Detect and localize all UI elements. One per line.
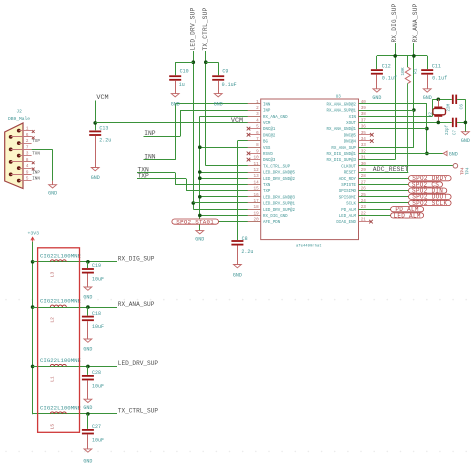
svg-text:XOUT: XOUT <box>346 122 356 126</box>
no-connect U3 pin21 <box>369 220 373 224</box>
svg-text:C27: C27 <box>92 424 101 430</box>
svg-text:BG: BG <box>263 141 268 145</box>
svg-text:GND: GND <box>214 101 223 107</box>
svg-text:DB9_Male: DB9_Male <box>8 116 30 122</box>
wire VCM to U3 pin4 <box>95 122 261 124</box>
svg-text:LED_DRV_SUP@1: LED_DRV_SUP@1 <box>263 202 295 207</box>
svg-text:GND: GND <box>233 273 242 279</box>
wire U3 pin28 <box>359 178 409 180</box>
svg-text:22M: 22M <box>448 103 452 111</box>
svg-text:19: 19 <box>254 211 260 216</box>
svg-text:L5: L5 <box>50 424 56 430</box>
wire C7 to gnd rail <box>457 122 465 124</box>
no-connect U3 pin5 <box>247 127 251 131</box>
svg-text:2.2u: 2.2u <box>241 249 253 255</box>
svg-text:6: 6 <box>256 131 259 136</box>
svg-text:40: 40 <box>361 100 367 105</box>
svg-text:TXN: TXN <box>32 153 40 157</box>
svg-text:CIG22L100MNE: CIG22L100MNE <box>40 405 82 412</box>
svg-text:RX_ANA_GND@1: RX_ANA_GND@1 <box>327 127 357 132</box>
svg-text:10uF: 10uF <box>92 437 104 443</box>
inductor L1 CIG22L100MNE <box>40 357 82 382</box>
svg-text:VCM: VCM <box>263 122 271 126</box>
capacitor C13 <box>89 126 111 168</box>
no-connect U3 pin9 <box>247 152 251 156</box>
wire U3 pin36 <box>359 128 427 130</box>
svg-text:INP: INP <box>263 110 271 114</box>
svg-text:RX_DIG_SUP: RX_DIG_SUP <box>391 3 398 42</box>
wire +3V3 rail <box>32 242 34 414</box>
svg-text:TP4: TP4 <box>461 167 465 175</box>
svg-text:GND: GND <box>83 295 92 301</box>
capacitor C18 10uF <box>82 307 104 339</box>
junction RX_ANA pin39 <box>412 108 416 112</box>
svg-text:34: 34 <box>361 137 367 142</box>
svg-text:C19: C19 <box>92 263 101 269</box>
inductor L3 CIG22L100MNE <box>40 252 82 277</box>
svg-text:GND: GND <box>83 405 92 411</box>
svg-text:14: 14 <box>254 180 260 185</box>
svg-text:INN: INN <box>32 178 40 182</box>
label LED_ALM <box>391 212 424 219</box>
net label TX_CTRL_SUP (vertical) <box>202 7 209 50</box>
junction LED rail / C10 <box>192 60 196 64</box>
svg-text:PD_ALM: PD_ALM <box>341 209 356 213</box>
label TXN (J2 pin3) <box>32 153 40 157</box>
op-amp U3 left pins <box>248 100 296 225</box>
node VCM (top) <box>96 94 108 102</box>
label SPO2_STA01 <box>172 219 219 226</box>
svg-text:CIG22L100MNE: CIG22L100MNE <box>40 252 82 259</box>
connector J2 DB9_Male body <box>5 109 31 189</box>
svg-text:VCM: VCM <box>231 117 243 125</box>
capacitor C10 <box>169 69 188 94</box>
svg-text:0.1uf: 0.1uf <box>432 76 447 82</box>
label TXP (J2 pin2) <box>32 140 40 144</box>
net INN <box>144 104 261 161</box>
junction XIN/crystal <box>437 98 441 102</box>
junction gnd bus pin36 <box>425 127 429 131</box>
wire J2 pin7 to ground <box>32 149 53 184</box>
svg-text:X2: X2 <box>430 111 434 117</box>
svg-text:1u: 1u <box>179 82 185 88</box>
svg-text:8: 8 <box>26 158 29 163</box>
wire U3 pin22 <box>359 215 391 217</box>
junction LED rail pin17 <box>192 201 196 205</box>
testpoint TP4 <box>453 164 470 176</box>
wire RX_ANA_SUP rail <box>359 43 414 148</box>
ground flag GND (pin32) <box>443 151 458 157</box>
svg-text:C18: C18 <box>92 311 101 317</box>
net label RX_DIG_SUP <box>118 256 155 263</box>
ground below C12 <box>372 89 381 101</box>
svg-text:DNC@4: DNC@4 <box>344 140 357 145</box>
capacitor C12 <box>371 56 397 89</box>
junction branch/C18 <box>86 305 90 309</box>
wire U3 pin32 to GND flag <box>359 153 443 155</box>
svg-text:DNC@1: DNC@1 <box>263 127 276 132</box>
svg-text:DNC@3: DNC@3 <box>263 158 276 163</box>
wire U3 pin30 CLKOUT <box>359 165 453 167</box>
no-connect J2 pin4 <box>32 168 35 171</box>
junction +3V3 rail branch 3 <box>31 365 35 369</box>
wire U3 pin37 XOUT <box>359 122 452 124</box>
svg-text:30: 30 <box>361 162 367 167</box>
svg-text:LED_DRV_SUP: LED_DRV_SUP <box>118 360 159 367</box>
svg-text:7: 7 <box>256 137 259 142</box>
net label LED_DRV_SUP (vertical) <box>189 7 196 50</box>
svg-text:10uF: 10uF <box>92 324 104 330</box>
svg-text:1: 1 <box>256 100 259 105</box>
svg-text:GND: GND <box>171 101 180 107</box>
svg-text:RSVD: RSVD <box>263 153 273 157</box>
svg-text:ADC_RESET: ADC_RESET <box>373 166 409 173</box>
wire U3 pin24 <box>359 202 409 204</box>
net label TX_CTRL_SUP <box>118 408 159 415</box>
label INP (J2 pin9) <box>32 171 40 175</box>
wire C10 top <box>175 62 193 75</box>
inductor L5 CIG22L100MNE <box>40 405 82 430</box>
svg-text:18: 18 <box>254 205 260 210</box>
svg-text:C28: C28 <box>92 370 101 376</box>
wire TX_CTRL_SUP rail <box>206 51 261 166</box>
svg-text:SPISIMO: SPISIMO <box>339 190 357 194</box>
svg-text:RX_DIG_SUP: RX_DIG_SUP <box>118 256 155 263</box>
svg-text:13: 13 <box>254 174 260 179</box>
svg-text:0.1uF: 0.1uF <box>222 82 237 88</box>
svg-text:RESET: RESET <box>344 172 357 176</box>
no-connect J2 pin8 <box>32 161 35 164</box>
ferrite bead box <box>38 248 80 432</box>
svg-text:INP: INP <box>144 130 156 137</box>
junction gnd rail/C7 <box>464 121 468 125</box>
net TXP <box>137 173 261 191</box>
wire U3 pin26 <box>359 190 409 192</box>
svg-text:LED_DRV_SUP: LED_DRV_SUP <box>189 7 196 50</box>
svg-text:L3: L3 <box>50 272 56 278</box>
svg-text:C11: C11 <box>432 64 441 70</box>
junction +3V3 rail branch 1 <box>31 260 35 264</box>
svg-text:17: 17 <box>254 199 260 204</box>
label SPO2_SCLK <box>409 200 452 207</box>
resistor R1 10K <box>400 56 418 172</box>
svg-text:CIG22L100MNE: CIG22L100MNE <box>40 357 82 364</box>
wire U3 pin29 RESET <box>359 172 409 174</box>
svg-text:GND: GND <box>372 95 381 101</box>
ground below C19 <box>83 287 92 301</box>
svg-text:U3: U3 <box>336 95 342 99</box>
svg-text:C12: C12 <box>382 64 391 70</box>
svg-text:12: 12 <box>254 168 260 173</box>
label SPO2_DIN <box>409 188 447 195</box>
ground below C13 <box>91 168 100 182</box>
svg-text:VSS: VSS <box>263 147 271 151</box>
svg-text:SPO2_STA01: SPO2_STA01 <box>176 219 214 226</box>
wire U3 pin40 gnd bus <box>359 104 427 154</box>
inductor L2 CIG22L100MNE <box>40 298 82 323</box>
junction branch/C28 <box>86 365 90 369</box>
wire LED_DRV_SUP rail <box>193 51 260 210</box>
wire branch RX_DIG_SUP <box>33 261 117 263</box>
capacitor C6 <box>452 95 464 110</box>
svg-text:INN: INN <box>263 103 271 107</box>
wire U3 pin7 BG to C8 <box>237 141 260 241</box>
label SPO2_DOUT <box>409 194 452 201</box>
svg-text:3: 3 <box>26 152 29 157</box>
svg-text:GND: GND <box>195 237 204 243</box>
ground below C8 <box>233 265 242 279</box>
svg-text:TX_CTRL_SUP: TX_CTRL_SUP <box>202 7 209 50</box>
ground below C28 <box>83 399 92 411</box>
svg-text:5: 5 <box>26 177 29 182</box>
svg-text:5: 5 <box>256 125 259 130</box>
net label RX_DIG_SUP (vertical) <box>391 3 398 42</box>
net INP <box>144 110 261 137</box>
wire C9 top <box>206 62 219 75</box>
svg-text:GND: GND <box>461 138 470 144</box>
svg-text:22pf: 22pf <box>445 124 450 135</box>
svg-text:CLKOUT: CLKOUT <box>341 165 356 169</box>
no-connect U3 pin35 <box>370 133 374 137</box>
svg-text:LED_DRV_SUP@2: LED_DRV_SUP@2 <box>263 208 295 213</box>
op-amp U3 right pins <box>327 100 372 225</box>
net label RX_ANA_SUP <box>118 301 155 308</box>
junction +3V3 rail branch 2 <box>31 305 35 309</box>
svg-text:SPISOMI: SPISOMI <box>339 196 357 200</box>
svg-text:21: 21 <box>361 218 367 223</box>
svg-text:TXN: TXN <box>263 184 271 188</box>
power +3V3 <box>28 230 40 241</box>
svg-text:R1: R1 <box>412 68 418 74</box>
svg-text:RX_ANA_GND@2: RX_ANA_GND@2 <box>327 102 357 107</box>
op-amp U3 body <box>261 95 359 248</box>
svg-text:TP4: TP4 <box>466 167 470 175</box>
svg-text:RX_ANA_GND: RX_ANA_GND <box>263 116 288 120</box>
junction branch/C19 <box>86 260 90 264</box>
junction branch/C27 <box>86 412 90 416</box>
svg-text:10uF: 10uF <box>92 383 104 389</box>
svg-text:J2: J2 <box>16 109 22 115</box>
svg-text:LED_DRV_GND@3: LED_DRV_GND@3 <box>263 195 295 200</box>
svg-text:TX_CTRL_SUP: TX_CTRL_SUP <box>118 408 159 415</box>
svg-text:LED_DRV_GND@5: LED_DRV_GND@5 <box>263 171 295 176</box>
svg-text:DIAG_END: DIAG_END <box>336 221 356 225</box>
no-connect U3 pin34 <box>370 139 374 143</box>
capacitor C11 <box>421 56 447 89</box>
svg-text:GND: GND <box>423 95 432 101</box>
svg-text:4: 4 <box>256 118 259 123</box>
svg-text:SCLK: SCLK <box>346 203 356 207</box>
net label LED_DRV_SUP <box>118 360 159 367</box>
svg-text:L2: L2 <box>50 317 56 323</box>
ground below J2 <box>48 185 57 197</box>
svg-text:LED_DRV_GND@2: LED_DRV_GND@2 <box>263 177 295 182</box>
svg-text:GND: GND <box>83 458 92 464</box>
svg-text:C9: C9 <box>222 69 228 75</box>
junction RX_DIG/bypass <box>393 54 397 58</box>
svg-text:C13: C13 <box>99 126 108 132</box>
capacitor C27 10uF <box>82 414 104 449</box>
capacitor C7 <box>445 118 457 135</box>
net TXN <box>137 166 261 184</box>
capacitor C19 10uF <box>82 262 104 287</box>
svg-text:RX_DIG_GND: RX_DIG_GND <box>263 215 288 219</box>
net label ADC_RESET <box>373 166 409 173</box>
svg-text:8: 8 <box>256 143 259 148</box>
svg-text:9: 9 <box>256 149 259 154</box>
svg-text:C8: C8 <box>242 236 248 242</box>
svg-text:10uF: 10uF <box>92 277 104 283</box>
junction RX_ANA/bypass <box>412 54 416 58</box>
no-connect U3 pin6 <box>247 133 251 137</box>
no-connect J2 pin6 <box>32 136 35 139</box>
svg-text:DNC@2: DNC@2 <box>263 133 276 138</box>
svg-text:C6: C6 <box>458 104 464 110</box>
svg-text:SPISTE: SPISTE <box>341 184 356 188</box>
wire U3 pin39 <box>359 110 414 112</box>
wire RX_DIG_SUP rail <box>359 43 396 160</box>
svg-text:RX_ANA_SUP@1: RX_ANA_SUP@1 <box>327 109 357 114</box>
svg-text:LED_ALM: LED_ALM <box>339 215 357 219</box>
svg-text:XIN: XIN <box>349 116 357 120</box>
svg-text:+3V3: +3V3 <box>28 230 40 236</box>
ground below GND bus <box>195 231 204 243</box>
svg-text:6: 6 <box>26 133 29 138</box>
svg-text:ADC_RDY: ADC_RDY <box>339 178 357 182</box>
connector J2 pins <box>9 127 32 183</box>
svg-text:TXP: TXP <box>263 190 271 194</box>
svg-text:TX_CTRL_SUP: TX_CTRL_SUP <box>263 165 291 169</box>
ground below C9 <box>214 94 223 108</box>
wire U3 pin20 <box>218 221 260 223</box>
ground below C10 <box>171 94 180 108</box>
wire C6 to gnd rail <box>457 99 465 131</box>
svg-text:20: 20 <box>254 218 260 223</box>
svg-text:RX_ANA_SUP: RX_ANA_SUP <box>118 301 155 308</box>
svg-text:C10: C10 <box>180 69 189 75</box>
svg-text:15: 15 <box>254 187 260 192</box>
svg-text:CIG22L100MNE: CIG22L100MNE <box>40 298 82 305</box>
svg-text:GND: GND <box>449 151 458 157</box>
wire U3 pin25 <box>359 196 409 198</box>
capacitor C8 <box>231 236 253 264</box>
svg-text:C7: C7 <box>454 129 458 135</box>
svg-text:RX_DIG_SUP@3: RX_DIG_SUP@3 <box>327 158 357 163</box>
label INN (J2 pin5) <box>32 178 40 182</box>
svg-text:GND: GND <box>48 191 57 197</box>
svg-text:VCM: VCM <box>96 94 108 102</box>
label SPO2_CS <box>409 181 443 188</box>
svg-text:RX_ANA_SUP: RX_ANA_SUP <box>412 3 419 42</box>
ground below C27 <box>83 449 92 465</box>
svg-text:DNC@5: DNC@5 <box>344 133 357 138</box>
junction gnd bus pin32 <box>425 152 429 156</box>
net label RX_ANA_SUP (vertical) <box>412 3 419 42</box>
svg-text:16: 16 <box>254 193 260 198</box>
ground below crystal caps <box>461 132 470 145</box>
svg-text:24: 24 <box>361 199 367 204</box>
wire GND bus (U3 pins 3,8,12,13,16,19) <box>198 116 261 230</box>
capacitor C9 <box>212 69 236 94</box>
svg-text:2: 2 <box>26 139 29 144</box>
wire branch RX_ANA_SUP <box>33 307 117 309</box>
svg-text:INP: INP <box>32 171 40 175</box>
svg-text:0.1uf: 0.1uf <box>382 76 397 82</box>
label SPO2_DRDY <box>409 175 452 182</box>
capacitor C28 10uF <box>82 366 104 399</box>
svg-text:RX_DIG_GND@1: RX_DIG_GND@1 <box>327 152 357 157</box>
wire U3 pin27 <box>359 184 409 186</box>
wire U3 pin38 XIN <box>359 99 452 116</box>
junction VCM/C13 <box>93 121 97 125</box>
svg-text:25: 25 <box>361 193 367 198</box>
crystal X2 <box>430 99 452 122</box>
svg-text:TXP: TXP <box>32 140 40 144</box>
svg-text:10K: 10K <box>400 67 406 76</box>
svg-text:LED_ALM: LED_ALM <box>393 212 420 219</box>
wire branch TX_CTRL_SUP <box>33 413 117 415</box>
svg-text:2: 2 <box>256 106 259 111</box>
svg-text:3: 3 <box>256 112 259 117</box>
ground below C11 <box>423 89 432 101</box>
wire LED rail to U3 pin17 <box>193 202 260 204</box>
svg-text:35: 35 <box>361 131 367 136</box>
svg-text:GND: GND <box>83 346 92 352</box>
wire branch LED_DRV_SUP <box>33 366 117 368</box>
wire U3 pin23 <box>359 209 391 211</box>
svg-text:AFE_PDN: AFE_PDN <box>263 221 281 225</box>
svg-text:2.2u: 2.2u <box>99 138 111 144</box>
ground below C18 <box>83 339 92 352</box>
svg-text:7: 7 <box>26 145 29 150</box>
no-connect J2 pin1 <box>32 130 35 133</box>
svg-text:4: 4 <box>26 164 29 169</box>
svg-text:1: 1 <box>26 127 29 132</box>
label PD_ALM <box>391 206 424 213</box>
svg-text:L1: L1 <box>50 376 56 382</box>
junction TX rail / C9 <box>204 60 208 64</box>
no-connect U3 pin10 <box>247 158 251 162</box>
wire top bypass rail <box>377 55 427 57</box>
wire VCM vertical <box>95 101 97 131</box>
svg-text:afe4490rhat: afe4490rhat <box>296 244 322 249</box>
svg-text:9: 9 <box>26 170 29 175</box>
svg-text:RX_ANA_SUP: RX_ANA_SUP <box>331 147 356 151</box>
svg-text:10: 10 <box>254 156 260 161</box>
junction XOUT/crystal <box>437 121 441 125</box>
label VCM (at U3) <box>231 117 243 125</box>
svg-text:GND: GND <box>91 175 100 181</box>
svg-text:11: 11 <box>254 162 260 167</box>
